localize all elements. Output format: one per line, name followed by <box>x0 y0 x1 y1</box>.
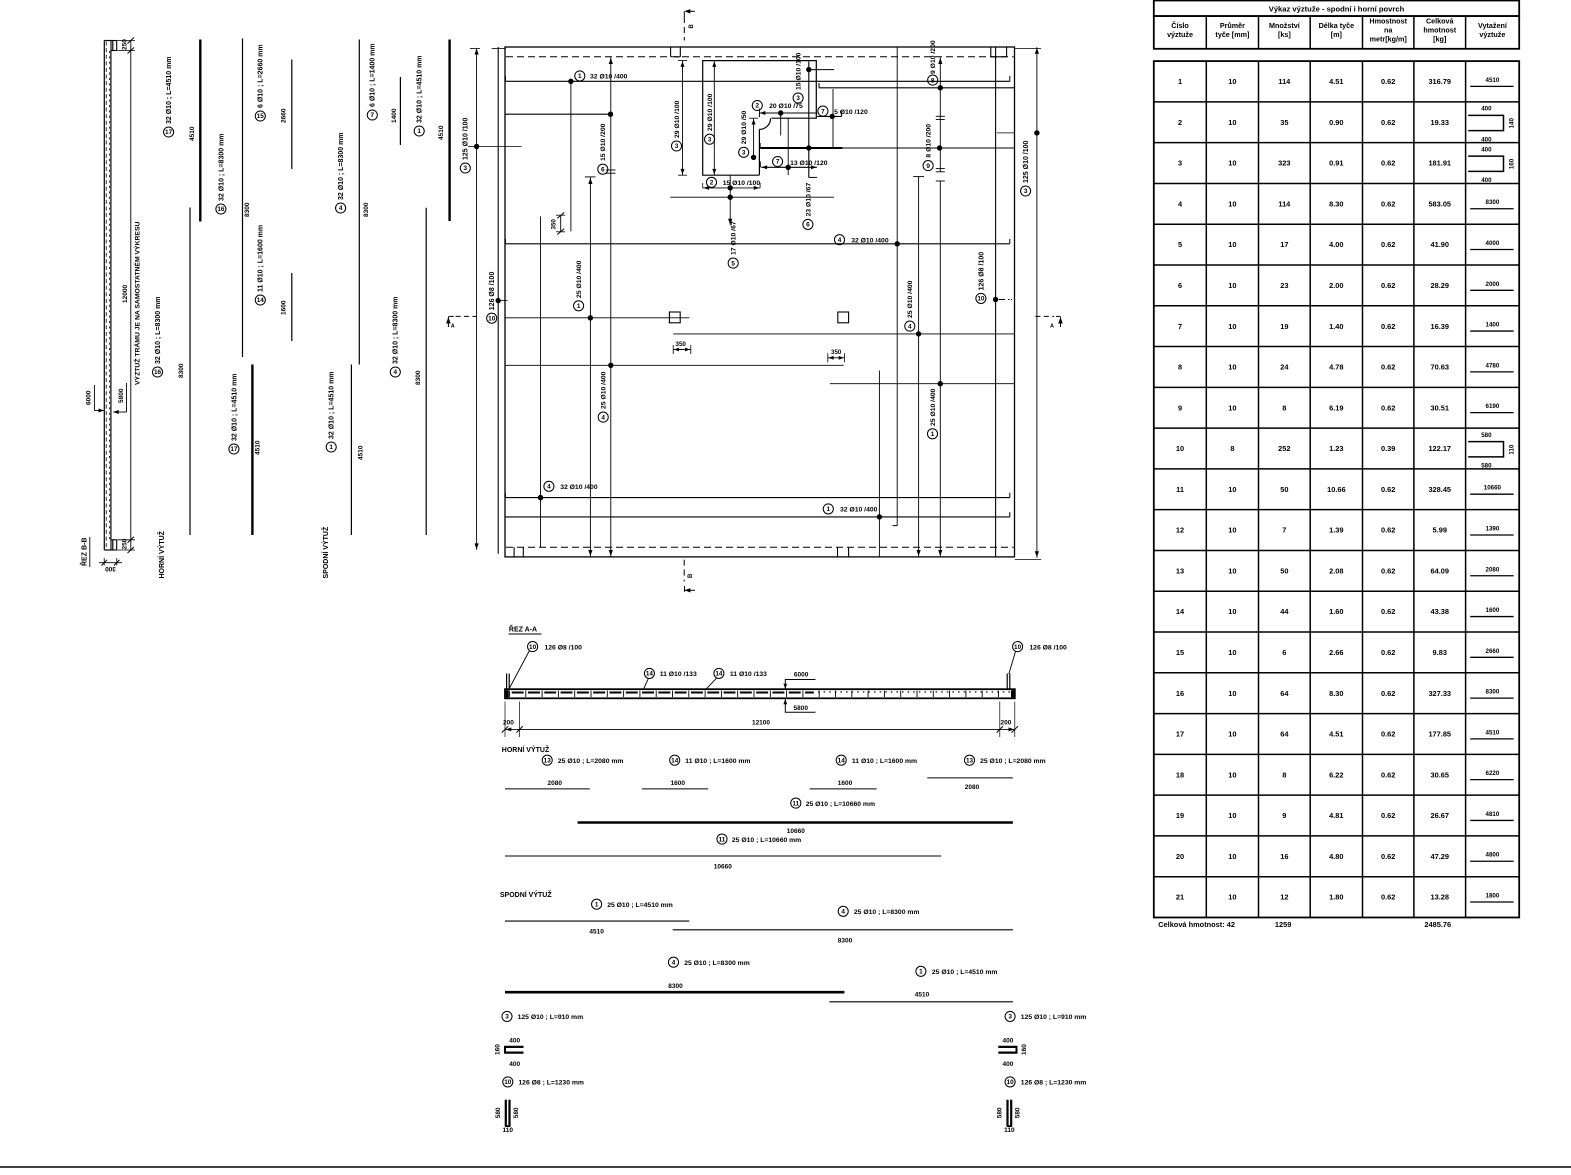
svg-text:10: 10 <box>1228 566 1236 575</box>
range line x918 <box>918 177 920 557</box>
svg-text:2: 2 <box>756 103 760 110</box>
svg-text:4: 4 <box>841 909 845 916</box>
svg-text:15: 15 <box>257 113 265 120</box>
bar 11 item a <box>791 798 801 808</box>
bar 4 bottom horizontal 32 o10/400 <box>505 497 1009 499</box>
bar 1 top horizontal 32 o10/400 <box>506 80 1010 82</box>
right dimension line 125 o10/100 <box>1036 47 1038 558</box>
svg-text:10: 10 <box>977 296 985 303</box>
svg-text:14: 14 <box>1176 607 1185 616</box>
svg-text:2660: 2660 <box>1486 648 1500 655</box>
svg-text:4.51: 4.51 <box>1329 77 1343 86</box>
line through left square <box>505 317 689 319</box>
beam section AA <box>505 689 1015 698</box>
dim 15 o10/100 bottom of opening <box>703 187 760 189</box>
bar 8 label <box>928 75 938 85</box>
svg-text:400: 400 <box>1481 177 1492 184</box>
svg-text:Číslo: Číslo <box>1171 21 1189 30</box>
svg-text:2000: 2000 <box>1486 281 1500 288</box>
svg-text:6.19: 6.19 <box>1329 403 1343 412</box>
bar 1 line c <box>505 920 689 922</box>
svg-text:400: 400 <box>1481 146 1492 153</box>
bar 1 item c <box>592 899 602 909</box>
svg-text:126 Ø8 /100: 126 Ø8 /100 <box>1029 644 1067 651</box>
svg-text:2.66: 2.66 <box>1329 648 1343 657</box>
table title box <box>1154 1 1519 17</box>
svg-text:583.05: 583.05 <box>1428 199 1451 208</box>
svg-text:9: 9 <box>1178 403 1182 412</box>
svg-text:4.78: 4.78 <box>1329 363 1343 372</box>
svg-text:32 Ø10 ; L=4510 mm: 32 Ø10 ; L=4510 mm <box>417 55 424 123</box>
svg-text:0.62: 0.62 <box>1381 526 1395 535</box>
svg-text:1600: 1600 <box>838 780 853 787</box>
svg-text:32 Ø10 /400: 32 Ø10 /400 <box>840 507 878 514</box>
distribution line across opening <box>670 196 834 198</box>
section B marker top <box>683 11 685 17</box>
svg-text:1: 1 <box>827 506 831 513</box>
left dimension line 125 o10/100 <box>476 48 478 550</box>
dim 29 o10/100 outer left <box>682 61 684 176</box>
svg-text:17: 17 <box>230 446 238 453</box>
svg-text:14: 14 <box>715 671 723 678</box>
svg-text:15 Ø10 /100: 15 Ø10 /100 <box>723 180 761 187</box>
bar 10 left line <box>497 47 499 554</box>
dimension line 12000 with 250 ends <box>130 41 132 551</box>
svg-text:5 Ø10 /120: 5 Ø10 /120 <box>834 109 868 116</box>
svg-text:12: 12 <box>1280 893 1288 902</box>
bar 10 right line <box>995 47 997 557</box>
svg-text:0.62: 0.62 <box>1381 607 1395 616</box>
svg-text:0.62: 0.62 <box>1381 199 1395 208</box>
svg-text:3: 3 <box>505 1014 509 1021</box>
section A marker right <box>1060 317 1062 327</box>
section A marker left <box>447 317 449 327</box>
svg-text:11 Ø10 /133: 11 Ø10 /133 <box>660 671 697 678</box>
svg-text:25 Ø10 /400: 25 Ø10 /400 <box>930 388 937 426</box>
svg-text:1600: 1600 <box>671 780 686 787</box>
section B marker bottom <box>683 560 685 582</box>
svg-text:2485.76: 2485.76 <box>1424 920 1451 929</box>
svg-text:16: 16 <box>1280 852 1288 861</box>
svg-text:11: 11 <box>719 836 726 843</box>
svg-text:400: 400 <box>1002 1037 1013 1044</box>
bar 17 lower label <box>229 444 239 454</box>
svg-text:0.39: 0.39 <box>1381 444 1395 453</box>
section B-B top notch <box>111 41 117 51</box>
svg-text:6: 6 <box>806 222 810 229</box>
svg-text:17: 17 <box>165 129 173 136</box>
bar 1 item d <box>916 966 926 976</box>
svg-text:25 Ø10 ; L=8300 mm: 25 Ø10 ; L=8300 mm <box>684 960 750 967</box>
label 5 17 o10/67 <box>728 258 738 268</box>
svg-text:64: 64 <box>1280 689 1289 698</box>
section B-B beam outline <box>103 41 105 551</box>
svg-text:10: 10 <box>1007 1079 1015 1086</box>
svg-text:na: na <box>1384 26 1393 35</box>
svg-text:126 Ø8 /100: 126 Ø8 /100 <box>489 272 496 311</box>
svg-text:400: 400 <box>1002 1061 1013 1068</box>
svg-text:2: 2 <box>710 180 714 187</box>
svg-text:11 Ø10 ; L=1600 mm: 11 Ø10 ; L=1600 mm <box>685 758 750 765</box>
bar 3 right label <box>1021 186 1031 196</box>
svg-text:43.38: 43.38 <box>1431 607 1450 616</box>
svg-text:126 Ø8 /100: 126 Ø8 /100 <box>545 644 583 651</box>
svg-text:29 Ø10 /100: 29 Ø10 /100 <box>707 93 714 131</box>
bar 4 left range dot <box>608 363 613 368</box>
svg-text:9: 9 <box>926 163 930 170</box>
svg-text:25 Ø10 ; L=4510 mm: 25 Ø10 ; L=4510 mm <box>932 969 998 976</box>
svg-text:4510: 4510 <box>438 125 445 140</box>
svg-text:44: 44 <box>1280 607 1289 616</box>
svg-text:32 Ø10 ; L=8300 mm: 32 Ø10 ; L=8300 mm <box>155 296 162 364</box>
svg-text:15 Ø10 /200: 15 Ø10 /200 <box>600 123 607 161</box>
svg-text:17: 17 <box>1176 730 1184 739</box>
svg-text:580: 580 <box>513 1107 520 1118</box>
beam AA end blocks <box>506 690 509 697</box>
svg-text:32 Ø10 /400: 32 Ø10 /400 <box>560 484 598 491</box>
dimension 6000 pointer <box>93 385 95 411</box>
bar 4 mid label <box>834 235 844 245</box>
svg-text:32 Ø10 ; L=4510 mm: 32 Ø10 ; L=4510 mm <box>166 56 173 124</box>
bar 3 vertical 15 o10/100 right <box>808 62 810 178</box>
svg-text:3: 3 <box>1178 159 1182 168</box>
svg-text:12000: 12000 <box>122 285 129 303</box>
svg-text:5: 5 <box>1178 240 1182 249</box>
svg-text:10660: 10660 <box>1484 485 1502 492</box>
svg-text:125 Ø10 ; L=910 mm: 125 Ø10 ; L=910 mm <box>518 1014 584 1021</box>
svg-text:32 Ø10 /400: 32 Ø10 /400 <box>590 74 628 81</box>
svg-text:14: 14 <box>257 297 265 304</box>
svg-text:126 Ø8 ; L=1230 mm: 126 Ø8 ; L=1230 mm <box>1021 1080 1087 1087</box>
bar 3 item right <box>1005 1011 1015 1021</box>
svg-text:4510: 4510 <box>915 992 930 999</box>
bar 1 bottom horizontal 32 o10/400 <box>505 516 1010 518</box>
svg-text:0.62: 0.62 <box>1381 770 1395 779</box>
bar 4 lower label <box>390 367 400 377</box>
bar 9 range line lower <box>939 181 941 557</box>
svg-text:6: 6 <box>1282 648 1286 657</box>
bar 14 label AA second <box>714 668 724 678</box>
plan bottom dashed line <box>506 546 1014 548</box>
beam AA dotted bar segments <box>818 691 1010 693</box>
svg-text:11 Ø10 /133: 11 Ø10 /133 <box>730 671 767 678</box>
svg-text:2080: 2080 <box>548 780 563 787</box>
svg-text:9.83: 9.83 <box>1433 648 1447 657</box>
bar 5 range line 17 o10/67 <box>729 175 731 225</box>
svg-text:10: 10 <box>529 644 537 651</box>
svg-text:9 Ø10 /200: 9 Ø10 /200 <box>930 40 937 74</box>
svg-text:2660: 2660 <box>281 108 288 123</box>
svg-text:4510: 4510 <box>1486 729 1500 736</box>
svg-text:4810: 4810 <box>1486 811 1500 818</box>
svg-text:25 Ø10 ; L=10660 mm: 25 Ø10 ; L=10660 mm <box>806 801 875 808</box>
svg-text:tyče [mm]: tyče [mm] <box>1215 30 1249 39</box>
svg-text:25 Ø10 /400: 25 Ø10 /400 <box>576 260 583 298</box>
svg-text:30.65: 30.65 <box>1431 770 1450 779</box>
bar 1 left range line <box>589 177 591 557</box>
svg-text:300: 300 <box>105 565 116 572</box>
svg-text:9: 9 <box>1282 811 1286 820</box>
svg-text:114: 114 <box>1278 199 1291 208</box>
svg-text:0.62: 0.62 <box>1381 363 1395 372</box>
svg-text:3: 3 <box>675 143 679 150</box>
bar 1 upper line <box>448 40 450 222</box>
range line x879 <box>878 371 880 557</box>
svg-text:4780: 4780 <box>1486 362 1500 369</box>
svg-text:250: 250 <box>122 39 129 50</box>
svg-text:2.08: 2.08 <box>1329 566 1343 575</box>
svg-text:41.90: 41.90 <box>1431 240 1450 249</box>
svg-text:8300: 8300 <box>415 370 422 385</box>
bar 15 label <box>255 111 265 121</box>
svg-text:Hmostnost: Hmostnost <box>1369 16 1407 25</box>
svg-text:0.62: 0.62 <box>1381 403 1395 412</box>
svg-text:24: 24 <box>1280 363 1289 372</box>
svg-text:10: 10 <box>1176 444 1184 453</box>
svg-text:0.62: 0.62 <box>1381 566 1395 575</box>
svg-text:8: 8 <box>1282 403 1286 412</box>
svg-text:580: 580 <box>1015 1107 1022 1118</box>
section B-B bottom notch <box>111 540 117 550</box>
table data box <box>1154 61 1519 917</box>
svg-text:A: A <box>451 324 455 330</box>
svg-text:4510: 4510 <box>357 445 364 460</box>
svg-text:25 Ø10 ; L=10660 mm: 25 Ø10 ; L=10660 mm <box>732 837 801 844</box>
svg-text:10: 10 <box>1228 811 1236 820</box>
svg-text:4.51: 4.51 <box>1329 730 1343 739</box>
svg-text:0.62: 0.62 <box>1381 852 1395 861</box>
svg-text:21: 21 <box>1176 893 1184 902</box>
svg-text:1: 1 <box>919 969 923 976</box>
label 3 15 o10/100 vertical <box>793 93 803 103</box>
svg-text:328.45: 328.45 <box>1428 485 1451 494</box>
svg-text:6000: 6000 <box>794 671 809 678</box>
svg-text:126 Ø8 /100: 126 Ø8 /100 <box>978 252 985 291</box>
svg-text:A: A <box>1050 324 1054 330</box>
svg-text:1: 1 <box>595 901 599 908</box>
AA bottom dimension line <box>505 728 1015 730</box>
svg-text:10: 10 <box>1228 159 1236 168</box>
svg-text:4510: 4510 <box>589 928 604 935</box>
bar 3 item left <box>502 1011 512 1021</box>
bar 2 top horizontal 20 o10/75 <box>759 112 817 114</box>
svg-text:0.62: 0.62 <box>1381 811 1395 820</box>
svg-text:32 Ø10 ; L=4510 mm: 32 Ø10 ; L=4510 mm <box>329 371 336 439</box>
plan bottom left tab <box>513 547 515 557</box>
svg-text:HORNÍ VÝTUŽ: HORNÍ VÝTUŽ <box>157 530 166 578</box>
bar 4 left rotated label <box>598 412 608 422</box>
svg-text:Průměr: Průměr <box>1220 21 1245 30</box>
bar 11 item b <box>717 834 727 844</box>
bar 10 sketch left <box>505 1100 507 1126</box>
svg-text:výztuže: výztuže <box>1167 30 1193 39</box>
svg-text:HORNÍ VÝTUŽ: HORNÍ VÝTUŽ <box>502 745 550 754</box>
svg-text:3: 3 <box>708 136 712 143</box>
svg-text:1.60: 1.60 <box>1329 607 1343 616</box>
svg-text:4000: 4000 <box>1486 240 1500 247</box>
svg-text:4: 4 <box>601 414 605 421</box>
bar 11 line a thick <box>578 821 1013 824</box>
svg-text:47.29: 47.29 <box>1431 852 1450 861</box>
bar 10 sketch right <box>1006 1100 1008 1126</box>
svg-text:2080: 2080 <box>1486 566 1500 573</box>
svg-text:3: 3 <box>796 95 800 102</box>
bar 8/9 horizontal line y148 <box>760 147 1014 149</box>
bar 4 mid horizontal 32 o10/400 <box>506 243 1010 245</box>
svg-text:0.62: 0.62 <box>1381 240 1395 249</box>
svg-text:400: 400 <box>1481 106 1492 113</box>
svg-text:16: 16 <box>217 206 225 213</box>
bar 16 upper line <box>242 39 244 358</box>
svg-text:0.62: 0.62 <box>1381 893 1395 902</box>
svg-text:17: 17 <box>1280 240 1288 249</box>
svg-text:140: 140 <box>1508 117 1515 128</box>
svg-text:25 Ø10 ; L=8300 mm: 25 Ø10 ; L=8300 mm <box>854 909 920 916</box>
stagger line left <box>540 216 542 547</box>
svg-text:6: 6 <box>601 166 605 173</box>
svg-text:350: 350 <box>676 341 687 348</box>
svg-text:4.81: 4.81 <box>1329 811 1343 820</box>
bar 13 item a <box>542 755 552 765</box>
bar 10 item right <box>1005 1077 1015 1087</box>
svg-text:6190: 6190 <box>1486 403 1500 410</box>
bar 4 bottom label <box>544 481 554 491</box>
bar 4 right rotated label <box>905 321 915 331</box>
bar 16 lower line <box>189 208 191 536</box>
bar 4 right range line <box>896 47 898 526</box>
svg-text:4: 4 <box>908 323 912 330</box>
svg-text:7: 7 <box>371 112 375 119</box>
bar 16 lower label <box>152 367 162 377</box>
bar 1 top range line <box>570 81 572 231</box>
svg-text:metr[kg/m]: metr[kg/m] <box>1370 35 1407 44</box>
svg-text:1.40: 1.40 <box>1329 322 1343 331</box>
svg-text:16: 16 <box>154 369 162 376</box>
svg-text:10: 10 <box>504 1079 512 1086</box>
svg-text:2: 2 <box>1178 118 1182 127</box>
svg-text:110: 110 <box>1508 444 1515 455</box>
bar 10 label left AA <box>528 642 538 652</box>
svg-text:64.09: 64.09 <box>1431 566 1450 575</box>
bar 4 item c <box>838 906 848 916</box>
svg-text:14: 14 <box>646 671 654 678</box>
bar 10 left label <box>487 313 497 323</box>
svg-text:32 Ø10 ; L=8300 mm: 32 Ø10 ; L=8300 mm <box>393 296 400 364</box>
bar 14 label AA first <box>644 668 654 678</box>
bar 1 lower line <box>350 365 352 536</box>
svg-text:0.62: 0.62 <box>1381 159 1395 168</box>
bar 1 line d <box>829 1001 1013 1003</box>
svg-text:12100: 12100 <box>752 720 770 727</box>
svg-text:1: 1 <box>1178 77 1182 86</box>
svg-text:10: 10 <box>1228 77 1236 86</box>
svg-text:250: 250 <box>122 538 129 549</box>
svg-text:Celková hmotnost: 42: Celková hmotnost: 42 <box>1158 920 1235 929</box>
svg-text:10: 10 <box>488 315 496 322</box>
svg-text:10: 10 <box>1014 644 1022 651</box>
mid line y384 <box>830 383 1014 385</box>
svg-text:10.66: 10.66 <box>1327 485 1346 494</box>
svg-text:10: 10 <box>1228 322 1236 331</box>
svg-text:10: 10 <box>1228 363 1236 372</box>
bar 7 lower horizontal 13 o10/120 <box>761 166 817 168</box>
svg-text:200: 200 <box>1001 720 1012 727</box>
svg-text:1: 1 <box>417 128 421 135</box>
svg-text:SPODNÍ VÝTUŽ: SPODNÍ VÝTUŽ <box>500 890 552 899</box>
svg-text:28.29: 28.29 <box>1431 281 1450 290</box>
bar 7 right horizontal 5 o10/120 <box>817 115 841 117</box>
svg-text:323: 323 <box>1278 159 1290 168</box>
svg-text:8: 8 <box>1178 363 1182 372</box>
svg-text:20: 20 <box>1176 852 1184 861</box>
bar 1 left label rotated <box>574 301 584 311</box>
label 6 23 o10/67 <box>803 219 813 229</box>
svg-text:316.79: 316.79 <box>1428 77 1451 86</box>
bar 16 upper label <box>216 204 226 214</box>
svg-text:5: 5 <box>731 260 735 267</box>
bar 8 horizontal 9 o10/200 <box>819 87 1015 89</box>
svg-text:4: 4 <box>1178 199 1183 208</box>
plan top tab <box>670 47 672 57</box>
svg-text:4: 4 <box>672 959 676 966</box>
svg-text:29 Ø10 /50: 29 Ø10 /50 <box>741 110 748 144</box>
svg-text:4800: 4800 <box>1486 852 1500 859</box>
bar 4 upper line <box>358 40 360 365</box>
svg-text:1.80: 1.80 <box>1329 893 1343 902</box>
bar 3 label left of plan <box>460 163 470 173</box>
svg-text:8: 8 <box>931 77 935 84</box>
svg-text:7: 7 <box>776 159 780 166</box>
svg-text:1600: 1600 <box>281 300 288 315</box>
svg-text:výztuže: výztuže <box>1479 30 1505 39</box>
svg-text:6: 6 <box>1178 281 1182 290</box>
svg-text:3: 3 <box>464 165 468 172</box>
svg-text:0.62: 0.62 <box>1381 77 1395 86</box>
page bottom border line <box>0 1166 1571 1168</box>
svg-text:400: 400 <box>509 1037 520 1044</box>
svg-text:50: 50 <box>1280 566 1288 575</box>
bar 4 lower line <box>425 208 427 535</box>
svg-text:19.33: 19.33 <box>1431 118 1450 127</box>
svg-text:1400: 1400 <box>1486 322 1500 329</box>
svg-text:114: 114 <box>1278 77 1291 86</box>
svg-text:3: 3 <box>1008 1014 1012 1021</box>
plan outer border <box>505 47 1015 557</box>
svg-text:15 Ø10 /100: 15 Ø10 /100 <box>796 52 803 90</box>
svg-text:252: 252 <box>1278 444 1290 453</box>
label 7 13 o10/120 <box>773 156 783 166</box>
dim 350 vertical <box>560 215 562 232</box>
svg-text:0.62: 0.62 <box>1381 485 1395 494</box>
svg-text:50: 50 <box>1280 485 1288 494</box>
svg-text:10: 10 <box>1228 240 1236 249</box>
svg-text:1600: 1600 <box>1486 607 1500 614</box>
svg-text:7: 7 <box>821 108 825 115</box>
svg-text:16.39: 16.39 <box>1431 322 1450 331</box>
bar 4 line d thick <box>505 991 844 994</box>
svg-text:8.30: 8.30 <box>1329 199 1343 208</box>
svg-text:VÝZTUŽ TRÁMU JE NA SAMOSTATNÉM: VÝZTUŽ TRÁMU JE NA SAMOSTATNÉM VÝKRESU <box>133 222 142 385</box>
bar 14 label <box>255 295 265 305</box>
svg-text:5800: 5800 <box>794 705 809 712</box>
svg-text:8300: 8300 <box>668 983 683 990</box>
svg-text:125 Ø10 ; L=910 mm: 125 Ø10 ; L=910 mm <box>1021 1014 1087 1021</box>
svg-text:25 Ø10 /400: 25 Ø10 /400 <box>601 371 608 409</box>
opening corner arc <box>759 118 770 129</box>
svg-text:400: 400 <box>1481 136 1492 143</box>
svg-text:70.63: 70.63 <box>1431 363 1450 372</box>
bar 10 hooks left <box>506 674 508 690</box>
